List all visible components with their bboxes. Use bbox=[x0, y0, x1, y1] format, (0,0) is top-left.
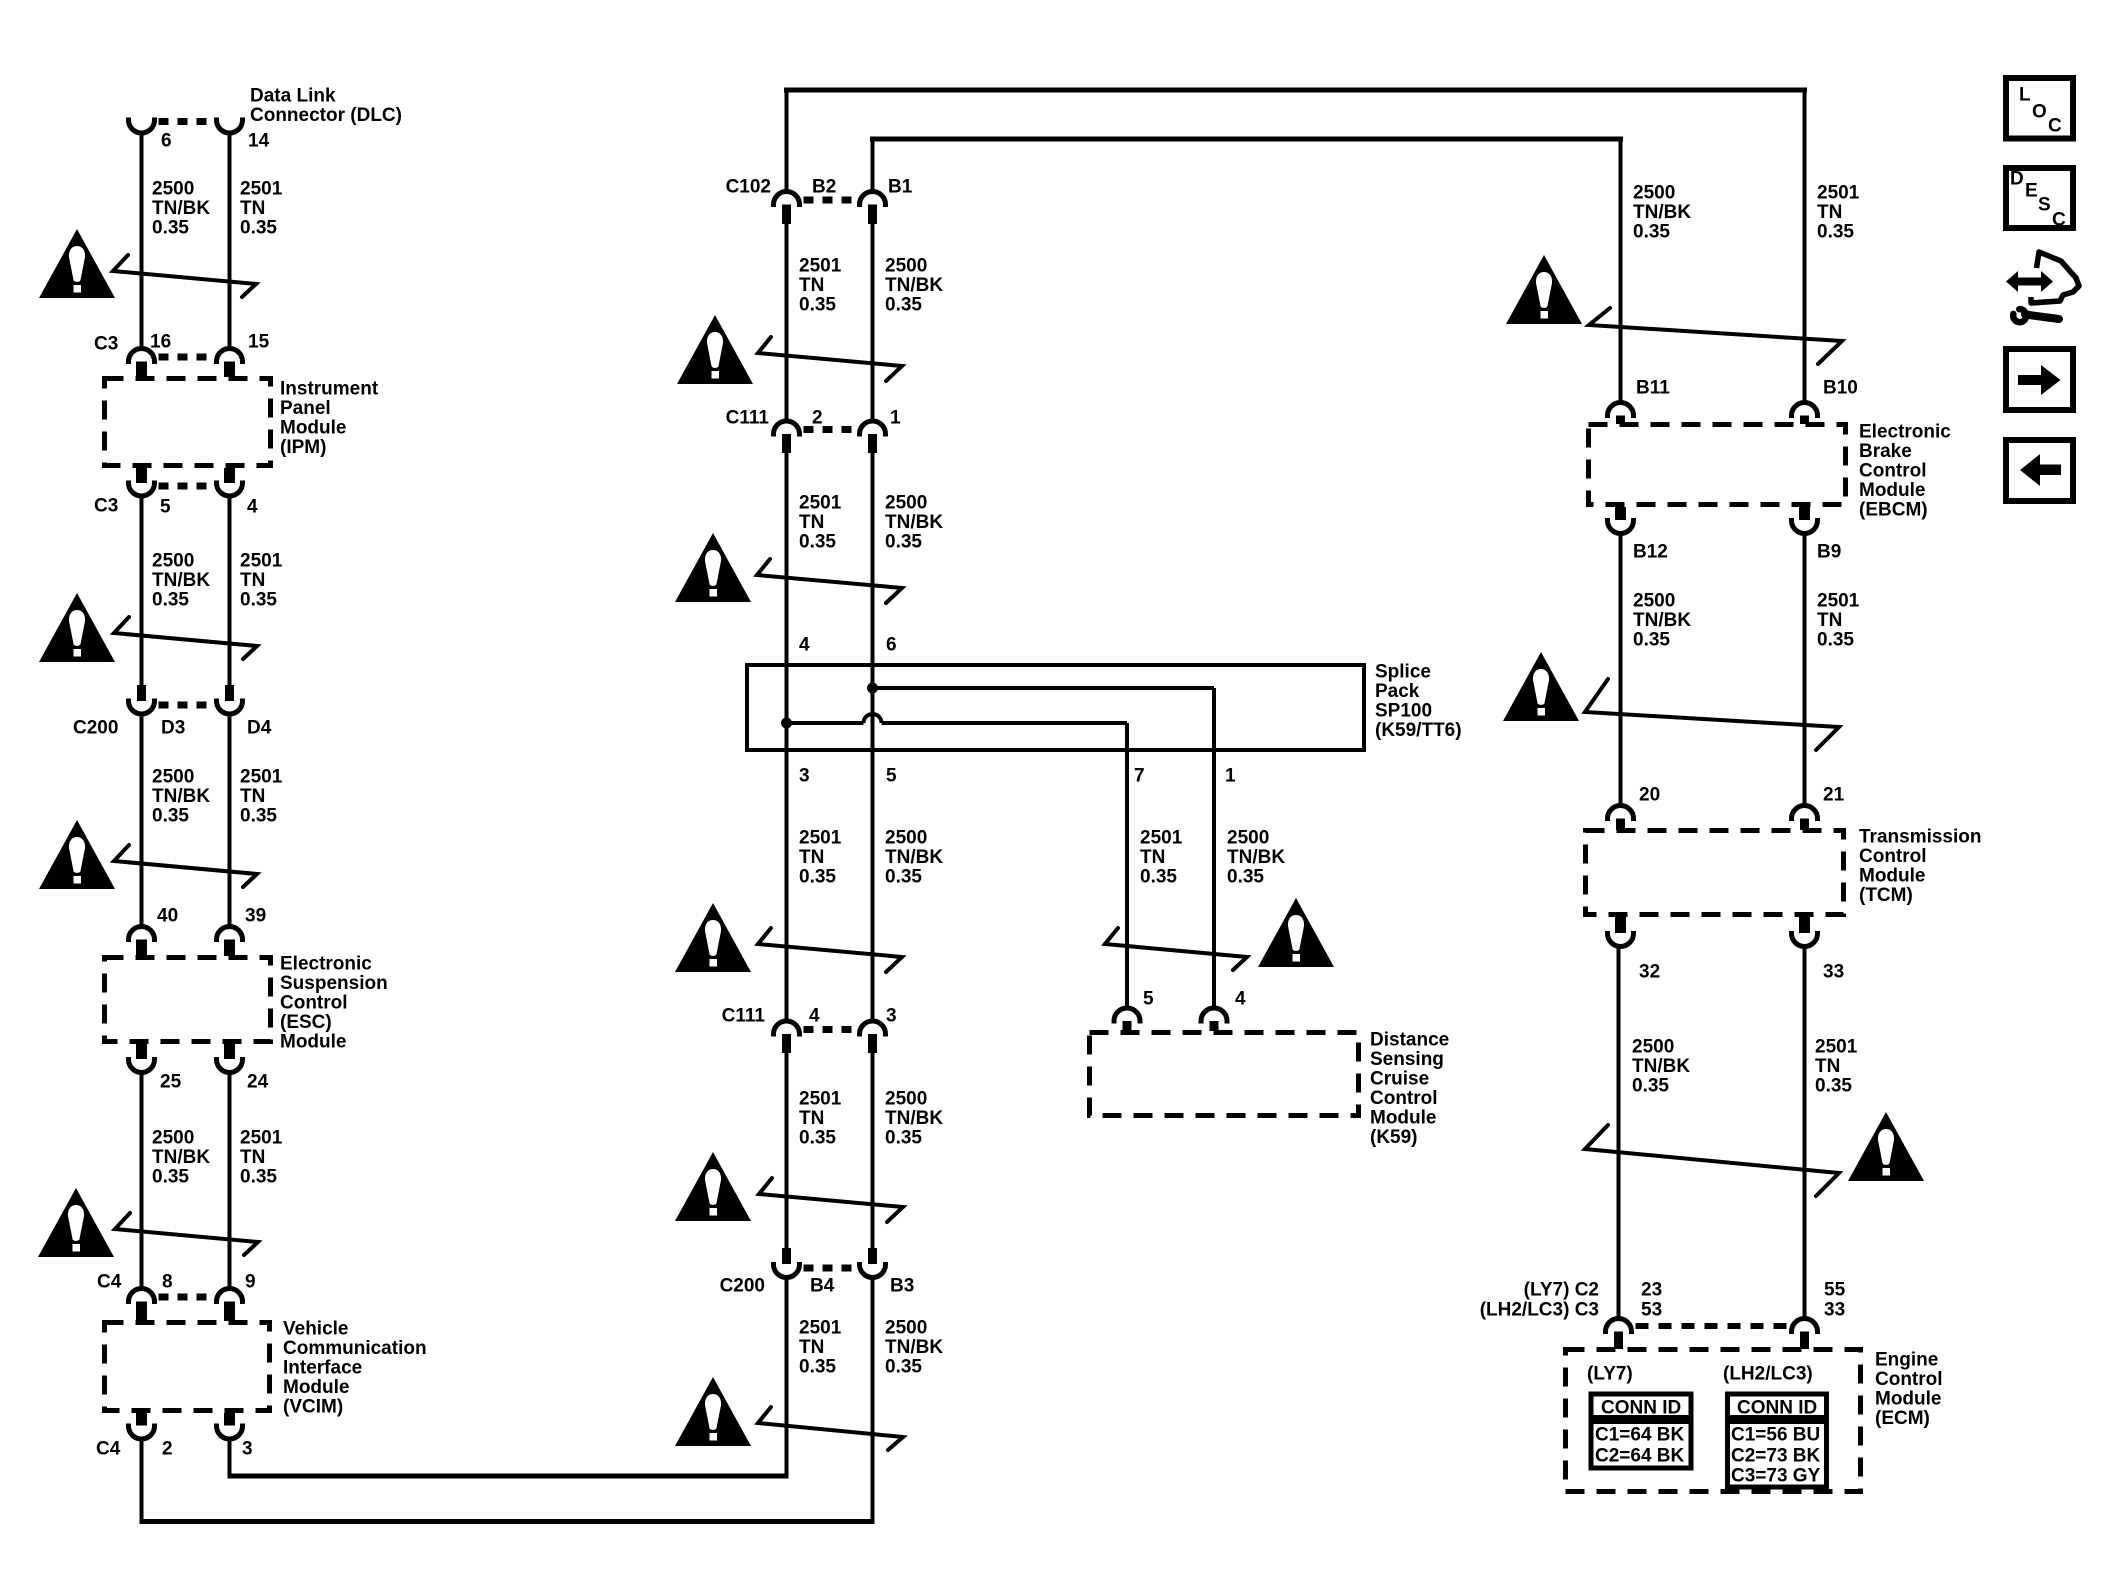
svg-text:C200: C200 bbox=[720, 1276, 765, 1297]
wire 2500 TN/BK from C200-B3 down to VCIM branch bbox=[871, 1278, 875, 1525]
svg-text:Electronic: Electronic bbox=[1859, 422, 1951, 443]
warning triangle 5 bbox=[677, 315, 753, 384]
svg-text:Module: Module bbox=[1875, 1389, 1942, 1410]
svg-text:(ESC): (ESC) bbox=[280, 1012, 332, 1033]
svg-text:Data Link: Data Link bbox=[250, 86, 336, 107]
svg-text:Control: Control bbox=[1370, 1088, 1438, 1109]
svg-text:5: 5 bbox=[1143, 989, 1154, 1010]
svg-text:7: 7 bbox=[1134, 766, 1145, 787]
svg-text:C3: C3 bbox=[94, 496, 118, 517]
svg-text:0.35: 0.35 bbox=[885, 1357, 922, 1378]
svg-text:(LY7): (LY7) bbox=[1587, 1364, 1633, 1385]
splice wire from 2500 TN/BK junction to pin 1 bbox=[873, 686, 1215, 690]
connector C3 dashed body bbox=[159, 354, 213, 361]
pin stub IPM 16 bbox=[136, 362, 147, 378]
connector C111 stub 1 bbox=[868, 434, 877, 453]
pointer crossing wires 10 bbox=[758, 1407, 903, 1450]
svg-text:TN: TN bbox=[240, 786, 265, 807]
svg-text:(K59): (K59) bbox=[1370, 1127, 1418, 1148]
connector C4 dashed body bbox=[159, 1294, 213, 1301]
pin stub ESC 40 bbox=[136, 940, 147, 957]
svg-text:TN: TN bbox=[240, 570, 265, 591]
svg-text:0.35: 0.35 bbox=[240, 218, 277, 239]
module EBCM pin B11 terminal bbox=[1608, 403, 1634, 418]
svg-text:Suspension: Suspension bbox=[280, 973, 388, 994]
svg-text:D3: D3 bbox=[161, 718, 185, 739]
wire 2500 TN/BK from splice-5 to C111-3 bbox=[871, 752, 875, 1023]
module ECM box bbox=[1566, 1350, 1861, 1492]
pin stub ESC 25 bbox=[136, 1044, 147, 1059]
svg-text:C2=64 BK: C2=64 BK bbox=[1595, 1446, 1685, 1467]
svg-text:Electronic: Electronic bbox=[280, 954, 372, 975]
svg-text:Module: Module bbox=[283, 1377, 350, 1398]
connector C200 dashed body bbox=[159, 702, 213, 709]
svg-text:B1: B1 bbox=[888, 177, 913, 198]
svg-text:0.35: 0.35 bbox=[1633, 630, 1670, 651]
svg-text:(ECM): (ECM) bbox=[1875, 1408, 1930, 1429]
connector C3 terminal 16 bbox=[129, 349, 155, 365]
svg-text:Sensing: Sensing bbox=[1370, 1049, 1444, 1070]
svg-text:2500: 2500 bbox=[1632, 1037, 1674, 1058]
connector C111 second dashed body bbox=[804, 1026, 856, 1033]
svg-text:2500: 2500 bbox=[152, 1128, 194, 1149]
pin stub EBCM B9 bbox=[1799, 507, 1810, 520]
table CONN ID (LH2/LC3) bbox=[1728, 1394, 1827, 1487]
svg-text:2501: 2501 bbox=[1817, 183, 1860, 204]
svg-text:2500: 2500 bbox=[1633, 183, 1675, 204]
module TCM pin 32 terminal bbox=[1608, 931, 1634, 947]
wire 2501 TN from ESC-24 to VCIM C4-9 bbox=[228, 1072, 232, 1290]
connector C102 terminal B2 bbox=[774, 192, 800, 207]
svg-text:L: L bbox=[2019, 85, 2031, 106]
connector C111 terminal 1 bbox=[860, 421, 886, 436]
pin stub ESC 24 bbox=[224, 1044, 235, 1059]
pin stub TCM 21 bbox=[1800, 819, 1809, 831]
pointer crossing wires 12 bbox=[1585, 679, 1839, 750]
svg-text:O: O bbox=[2032, 102, 2047, 123]
svg-text:2501: 2501 bbox=[799, 1318, 842, 1339]
svg-text:Interface: Interface bbox=[283, 1358, 362, 1379]
svg-text:S: S bbox=[2038, 195, 2051, 216]
svg-text:0.35: 0.35 bbox=[1140, 867, 1177, 888]
svg-text:TN: TN bbox=[799, 1337, 824, 1358]
module TCM box bbox=[1586, 831, 1844, 915]
connector C4 terminal 8 bbox=[129, 1289, 155, 1305]
junction node on 2500 TN/BK bbox=[867, 683, 878, 694]
svg-text:0.35: 0.35 bbox=[152, 218, 189, 239]
module VCIM pin 2 terminal bbox=[129, 1424, 155, 1440]
pin stub EBCM B10 bbox=[1800, 416, 1809, 425]
module ECM pin terminal right bbox=[1792, 1319, 1818, 1335]
svg-text:32: 32 bbox=[1639, 962, 1660, 983]
connector C200 stub B4 bbox=[782, 1248, 791, 1264]
svg-text:Distance: Distance bbox=[1370, 1030, 1449, 1051]
svg-text:Brake: Brake bbox=[1859, 441, 1912, 462]
splice pack SP100 box bbox=[747, 665, 1364, 750]
warning triangle 4 bbox=[38, 1188, 114, 1257]
connector C111 dashed body bbox=[804, 426, 856, 433]
svg-text:TN: TN bbox=[1817, 202, 1842, 223]
svg-text:Splice: Splice bbox=[1375, 662, 1431, 683]
svg-text:40: 40 bbox=[157, 906, 178, 927]
svg-text:B2: B2 bbox=[812, 177, 836, 198]
svg-text:C2=73 BK: C2=73 BK bbox=[1731, 1446, 1821, 1467]
connector C111 stub 3 bbox=[868, 1034, 877, 1053]
pin stub ECM right bbox=[1800, 1332, 1809, 1350]
icon electrical repair: wrench bbox=[2013, 309, 2026, 322]
svg-text:C1=64 BK: C1=64 BK bbox=[1595, 1425, 1685, 1446]
svg-text:53: 53 bbox=[1641, 1300, 1662, 1321]
svg-text:14: 14 bbox=[248, 131, 270, 152]
svg-text:(VCIM): (VCIM) bbox=[283, 1397, 343, 1418]
module ECM pin terminal left bbox=[1606, 1319, 1632, 1335]
pointer crossing wires 1 bbox=[113, 255, 256, 297]
svg-text:C: C bbox=[2052, 210, 2066, 231]
wire 2500 TN/BK from C200-D3 to ESC-40 bbox=[140, 714, 144, 928]
wire 2501 TN from splice-3 to C111-4 bbox=[785, 752, 789, 1023]
wire 2500 TN/BK from TCM-32 to ECM bbox=[1617, 946, 1621, 1320]
wire 2501 TN from C200-D4 to ESC-39 bbox=[228, 714, 232, 928]
svg-text:TN: TN bbox=[799, 275, 824, 296]
svg-text:TN/BK: TN/BK bbox=[885, 512, 943, 533]
pin stub DSCC 5 bbox=[1123, 1021, 1132, 1031]
svg-text:D4: D4 bbox=[247, 718, 272, 739]
svg-text:2500: 2500 bbox=[885, 493, 927, 514]
svg-text:2501: 2501 bbox=[240, 1128, 283, 1149]
connector C111 stub 4 bbox=[782, 1034, 791, 1053]
pointer crossing wires 5 bbox=[758, 337, 902, 381]
wire 2501 TN from VCIM C4-3 down and right to C200-B4 bbox=[228, 1439, 232, 1476]
connector C111 terminal 2 bbox=[774, 421, 800, 436]
svg-text:B3: B3 bbox=[890, 1276, 914, 1297]
wire 2501 TN from EBCM-B9 to TCM-21 bbox=[1803, 533, 1807, 807]
svg-text:0.35: 0.35 bbox=[1633, 222, 1670, 243]
svg-text:C4: C4 bbox=[96, 1439, 121, 1460]
svg-text:Panel: Panel bbox=[280, 398, 331, 419]
svg-text:4: 4 bbox=[247, 497, 258, 518]
module EBCM pin B12 terminal bbox=[1608, 518, 1634, 534]
svg-text:C4: C4 bbox=[97, 1272, 122, 1293]
svg-text:2500: 2500 bbox=[152, 179, 194, 200]
connector C102 stub B1 bbox=[868, 205, 877, 225]
wire 2500 TN/BK from C111-3 to C200-B3 bbox=[871, 1053, 875, 1248]
svg-text:0.35: 0.35 bbox=[799, 295, 836, 316]
pin stub VCIM 2 bbox=[136, 1413, 147, 1426]
connector C3 terminal 15 bbox=[217, 349, 243, 365]
svg-text:Connector (DLC): Connector (DLC) bbox=[250, 105, 402, 126]
warning triangle 11 bbox=[1506, 255, 1582, 324]
svg-text:0.35: 0.35 bbox=[885, 295, 922, 316]
svg-text:0.35: 0.35 bbox=[799, 1357, 836, 1378]
svg-text:C3: C3 bbox=[94, 334, 118, 355]
svg-text:5: 5 bbox=[160, 497, 171, 518]
svg-text:TN/BK: TN/BK bbox=[1633, 202, 1691, 223]
svg-text:D: D bbox=[2010, 169, 2024, 190]
module IPM box bbox=[105, 379, 271, 466]
svg-text:15: 15 bbox=[248, 332, 270, 353]
svg-text:C200: C200 bbox=[73, 718, 118, 739]
wire 2501 TN through splice (pin 4 to pin 3) bbox=[785, 665, 789, 752]
svg-text:3: 3 bbox=[799, 766, 810, 787]
svg-text:0.35: 0.35 bbox=[885, 532, 922, 553]
svg-text:TN/BK: TN/BK bbox=[1632, 1056, 1690, 1077]
svg-text:6: 6 bbox=[161, 131, 172, 152]
svg-text:2501: 2501 bbox=[1140, 828, 1183, 849]
connector C3 bottom dashed body bbox=[159, 483, 213, 490]
wire 2500 TN/BK from EBCM-B12 to TCM-20 bbox=[1619, 533, 1623, 807]
svg-text:0.35: 0.35 bbox=[885, 867, 922, 888]
module ESC pin 24 terminal bbox=[217, 1057, 243, 1073]
svg-text:SP100: SP100 bbox=[1375, 701, 1432, 722]
svg-text:TN: TN bbox=[1815, 1056, 1840, 1077]
svg-text:0.35: 0.35 bbox=[1815, 1076, 1852, 1097]
wire 2501 TN from C102-B2 up across top to EBCM-B10 bbox=[785, 93, 789, 193]
wire 2500 TN/BK from IPM-5 to C200-D3 bbox=[140, 496, 144, 685]
svg-text:Module: Module bbox=[1370, 1108, 1437, 1129]
svg-text:Module: Module bbox=[1859, 866, 1926, 887]
module TCM pin 21 terminal bbox=[1792, 806, 1818, 822]
svg-text:0.35: 0.35 bbox=[240, 806, 277, 827]
svg-text:20: 20 bbox=[1639, 785, 1660, 806]
module DSCC pin 5 terminal bbox=[1114, 1008, 1140, 1024]
wire 2500 TN/BK through splice (pin 6 to pin 5) bbox=[871, 665, 875, 752]
table CONN ID (LY7) bbox=[1591, 1394, 1691, 1468]
svg-text:TN/BK: TN/BK bbox=[152, 786, 210, 807]
wire 2500 TN/BK from ESC-25 to VCIM C4-8 bbox=[140, 1072, 144, 1290]
connector C3 terminal 5 bbox=[129, 481, 155, 497]
connector C111 terminal 3 bbox=[860, 1021, 886, 1036]
wire 2501 TN from DLC-14 to IPM-15 bbox=[228, 133, 232, 350]
svg-text:0.35: 0.35 bbox=[799, 867, 836, 888]
svg-text:2501: 2501 bbox=[799, 828, 842, 849]
connector C111 stub 2 bbox=[782, 434, 791, 453]
connector C200 terminal B3 bbox=[860, 1262, 886, 1278]
pin stub IPM 5 bbox=[136, 468, 147, 483]
svg-text:16: 16 bbox=[150, 332, 171, 353]
svg-text:B11: B11 bbox=[1636, 378, 1670, 399]
svg-text:B10: B10 bbox=[1823, 378, 1858, 399]
svg-text:Module: Module bbox=[280, 418, 347, 439]
module ESC pin 39 terminal bbox=[217, 927, 243, 942]
svg-text:TN/BK: TN/BK bbox=[1227, 847, 1285, 868]
pointer crossing wires 2 bbox=[114, 617, 257, 659]
icon back arrow box bbox=[2006, 440, 2073, 501]
icon DESC box bbox=[2006, 168, 2073, 228]
svg-text:0.35: 0.35 bbox=[240, 590, 277, 611]
svg-text:0.35: 0.35 bbox=[152, 1167, 189, 1188]
wire 2500 TN/BK from DLC-6 to IPM-16 bbox=[140, 133, 144, 350]
pointer crossing wires 7 bbox=[758, 928, 902, 972]
warning triangle 8 bbox=[1258, 898, 1334, 967]
svg-text:2501: 2501 bbox=[1817, 591, 1860, 612]
svg-text:TN/BK: TN/BK bbox=[885, 275, 943, 296]
module VCIM box bbox=[105, 1323, 270, 1411]
svg-text:Control: Control bbox=[1859, 461, 1927, 482]
warning triangle 2 bbox=[39, 593, 115, 662]
connector DLC terminal pin 14 bbox=[217, 118, 243, 134]
warning triangle 9 bbox=[675, 1152, 751, 1221]
connector C200 stub B3 bbox=[868, 1248, 877, 1264]
connector C3 terminal 4 bbox=[217, 481, 243, 497]
svg-text:TN: TN bbox=[799, 512, 824, 533]
connector C102 stub B2 bbox=[782, 205, 791, 225]
icon forward arrow box bbox=[2006, 349, 2073, 410]
svg-text:0.35: 0.35 bbox=[1632, 1076, 1669, 1097]
pointer crossing wires 9 bbox=[759, 1178, 903, 1222]
pin stub ECM left bbox=[1614, 1332, 1623, 1350]
svg-text:24: 24 bbox=[247, 1072, 269, 1093]
svg-text:2: 2 bbox=[812, 408, 823, 429]
icon LOC box bbox=[2006, 78, 2073, 139]
splice wire from 2501 TN junction to pin 7 with hop over 2500 bbox=[787, 721, 864, 725]
svg-text:TN: TN bbox=[240, 1147, 265, 1168]
module TCM pin 20 terminal bbox=[1608, 806, 1634, 822]
svg-text:2500: 2500 bbox=[1633, 591, 1675, 612]
svg-text:21: 21 bbox=[1823, 785, 1845, 806]
svg-text:Pack: Pack bbox=[1375, 681, 1420, 702]
pin stub DSCC 4 bbox=[1210, 1021, 1219, 1031]
pointer crossing wires 4 bbox=[115, 1213, 258, 1255]
pin stub VCIM 8 bbox=[136, 1302, 147, 1322]
svg-text:0.35: 0.35 bbox=[1817, 222, 1854, 243]
svg-text:TN: TN bbox=[1140, 847, 1165, 868]
svg-text:C1=56 BU: C1=56 BU bbox=[1731, 1425, 1820, 1446]
module VCIM pin 3 terminal bbox=[217, 1424, 243, 1440]
junction node on 2501 TN bbox=[781, 718, 792, 729]
svg-text:B9: B9 bbox=[1817, 542, 1841, 563]
svg-text:2500: 2500 bbox=[885, 1318, 927, 1339]
wire 2500 TN/BK from C111-1 to splice pin 6 bbox=[871, 453, 875, 665]
wire 2500 TN/BK from C102-B1 to C111-1 bbox=[871, 224, 875, 423]
svg-text:C111: C111 bbox=[726, 408, 770, 429]
svg-text:B12: B12 bbox=[1633, 542, 1668, 563]
connector C200 terminal B4 bbox=[774, 1262, 800, 1278]
svg-text:CONN ID: CONN ID bbox=[1601, 1398, 1681, 1419]
connector C111 terminal 4 bbox=[774, 1021, 800, 1036]
svg-text:39: 39 bbox=[245, 906, 266, 927]
connector DLC terminal pin 6 bbox=[129, 118, 155, 134]
warning triangle 6 bbox=[675, 533, 751, 602]
svg-text:Cruise: Cruise bbox=[1370, 1069, 1429, 1090]
svg-text:E: E bbox=[2025, 181, 2038, 202]
svg-text:8: 8 bbox=[162, 1272, 173, 1293]
module ESC pin 25 terminal bbox=[129, 1057, 155, 1073]
svg-text:6: 6 bbox=[886, 635, 897, 656]
pin stub TCM 33 bbox=[1799, 917, 1810, 933]
svg-text:Communication: Communication bbox=[283, 1338, 427, 1359]
wire 2501 TN from C102-B2 to C111-2 bbox=[785, 224, 789, 423]
svg-text:0.35: 0.35 bbox=[799, 532, 836, 553]
svg-text:0.35: 0.35 bbox=[1227, 867, 1264, 888]
warning triangle 7 bbox=[675, 903, 751, 972]
svg-text:Control: Control bbox=[1859, 846, 1927, 867]
warning triangle 3 bbox=[39, 820, 115, 889]
svg-text:Module: Module bbox=[1859, 480, 1926, 501]
wire 2501 TN from TCM-33 to ECM bbox=[1803, 946, 1807, 1320]
warning triangle 1 bbox=[39, 229, 115, 298]
svg-text:TN/BK: TN/BK bbox=[885, 1337, 943, 1358]
svg-text:0.35: 0.35 bbox=[240, 1167, 277, 1188]
svg-text:2501: 2501 bbox=[240, 551, 283, 572]
connector C102 terminal B1 bbox=[860, 192, 886, 207]
svg-text:(K59/TT6): (K59/TT6) bbox=[1375, 720, 1462, 741]
svg-text:Control: Control bbox=[1875, 1369, 1943, 1390]
svg-text:2501: 2501 bbox=[799, 256, 842, 277]
pointer crossing wires 13 bbox=[1585, 1125, 1839, 1196]
svg-text:4: 4 bbox=[809, 1006, 820, 1027]
connector C200 stub D3 bbox=[137, 685, 146, 701]
svg-text:2501: 2501 bbox=[240, 179, 283, 200]
svg-text:(EBCM): (EBCM) bbox=[1859, 500, 1928, 521]
svg-text:(LY7) C2: (LY7) C2 bbox=[1524, 1280, 1599, 1301]
pointer crossing wires 8 bbox=[1105, 928, 1247, 970]
pin stub VCIM 9 bbox=[224, 1302, 235, 1322]
svg-text:Engine: Engine bbox=[1875, 1350, 1938, 1371]
svg-text:33: 33 bbox=[1823, 962, 1844, 983]
pin stub EBCM B11 bbox=[1616, 416, 1625, 425]
svg-text:TN/BK: TN/BK bbox=[885, 847, 943, 868]
wire 2501 TN from C111-4 to C200-B4 bbox=[785, 1053, 789, 1248]
svg-text:Vehicle: Vehicle bbox=[283, 1319, 349, 1340]
svg-text:C102: C102 bbox=[726, 177, 771, 198]
module EBCM pin B9 terminal bbox=[1792, 518, 1818, 534]
svg-text:2500: 2500 bbox=[152, 767, 194, 788]
module DSCC pin 4 terminal bbox=[1201, 1008, 1227, 1024]
svg-text:2500: 2500 bbox=[1227, 828, 1269, 849]
wire 2501 TN from IPM-4 to C200-D4 bbox=[228, 496, 232, 685]
module ESC pin 40 terminal bbox=[129, 927, 155, 942]
pin stub TCM 20 bbox=[1616, 819, 1625, 831]
connector DLC dashed body bbox=[159, 118, 213, 125]
pin stub TCM 32 bbox=[1615, 917, 1626, 933]
svg-text:Module: Module bbox=[280, 1032, 347, 1053]
svg-text:(LH2/LC3) C3: (LH2/LC3) C3 bbox=[1480, 1300, 1599, 1321]
svg-text:0.35: 0.35 bbox=[152, 590, 189, 611]
icon electrical repair: double arrow bbox=[2015, 278, 2044, 286]
svg-text:Transmission: Transmission bbox=[1859, 827, 1982, 848]
svg-text:1: 1 bbox=[1225, 766, 1236, 787]
svg-text:TN: TN bbox=[799, 847, 824, 868]
svg-text:4: 4 bbox=[799, 635, 810, 656]
connector C200 terminal D4 bbox=[217, 699, 243, 715]
svg-text:0.35: 0.35 bbox=[152, 806, 189, 827]
svg-text:C111: C111 bbox=[722, 1006, 766, 1027]
wire 2501 TN from C111-2 to splice pin 4 bbox=[785, 453, 789, 665]
svg-text:(IPM): (IPM) bbox=[280, 437, 326, 458]
svg-text:33: 33 bbox=[1824, 1300, 1845, 1321]
module EBCM pin B10 terminal bbox=[1792, 403, 1818, 418]
svg-text:TN/BK: TN/BK bbox=[1633, 610, 1691, 631]
svg-text:TN: TN bbox=[1817, 610, 1842, 631]
connector C200 second dashed body bbox=[804, 1265, 856, 1272]
pin stub ESC 39 bbox=[224, 940, 235, 957]
svg-text:2501: 2501 bbox=[240, 767, 283, 788]
svg-text:55: 55 bbox=[1824, 1280, 1846, 1301]
module EBCM box bbox=[1589, 425, 1846, 505]
svg-text:9: 9 bbox=[245, 1272, 256, 1293]
svg-text:C: C bbox=[2048, 116, 2062, 137]
svg-text:0.35: 0.35 bbox=[885, 1128, 922, 1149]
connector C200 stub D4 bbox=[225, 685, 234, 701]
svg-text:0.35: 0.35 bbox=[1817, 630, 1854, 651]
pin stub VCIM 3 bbox=[224, 1413, 235, 1426]
wire 2500 TN/BK from VCIM C4-2 down and right to C200-B3 bbox=[140, 1439, 144, 1522]
icon electrical repair: connector outline bbox=[2031, 252, 2079, 303]
svg-text:5: 5 bbox=[886, 766, 897, 787]
warning triangle 13 bbox=[1848, 1112, 1924, 1181]
svg-text:TN/BK: TN/BK bbox=[885, 1108, 943, 1129]
pin stub EBCM B12 bbox=[1615, 507, 1626, 520]
